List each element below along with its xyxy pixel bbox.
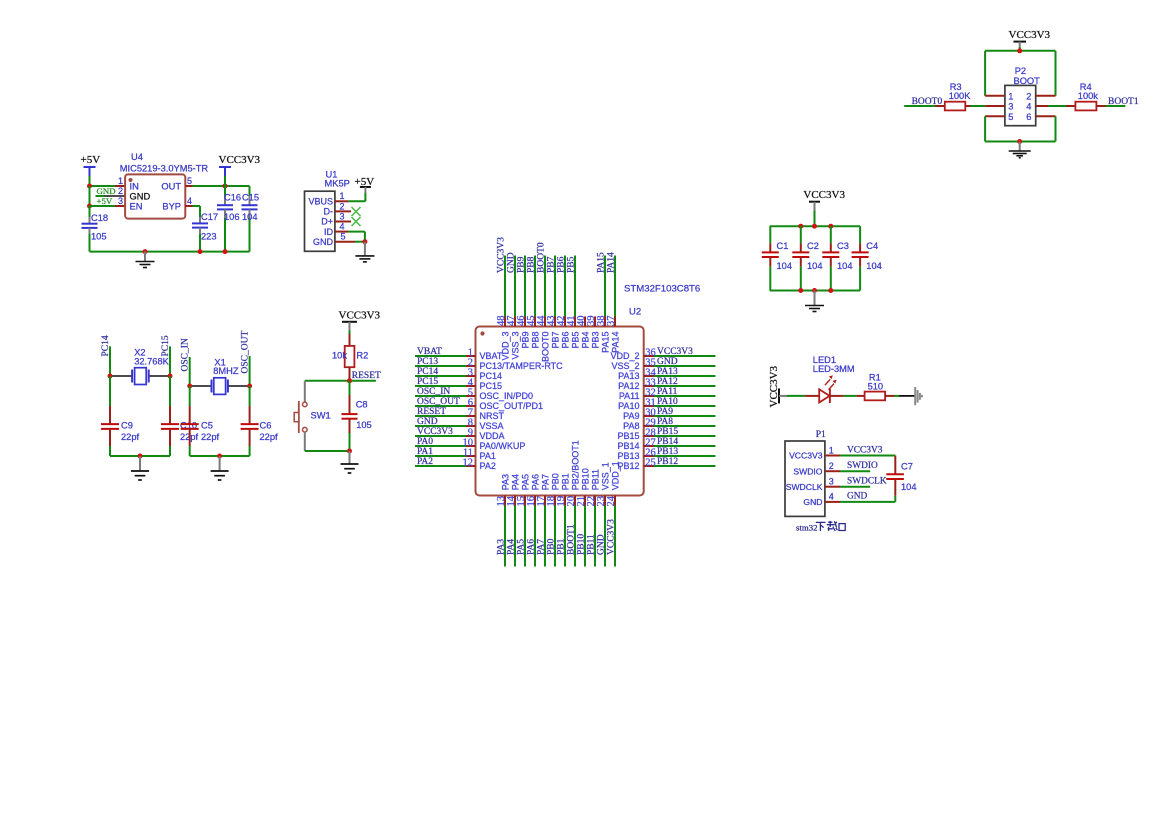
- svg-text:NRST: NRST: [480, 411, 505, 421]
- node junction C8/gnd: [347, 449, 352, 454]
- svg-text:BOOT: BOOT: [1014, 76, 1041, 86]
- wire ground rail: [90, 251, 250, 253]
- svg-text:VCC3V3: VCC3V3: [657, 347, 693, 357]
- svg-text:IN: IN: [130, 181, 139, 191]
- svg-text:STM32F103C8T6: STM32F103C8T6: [624, 284, 700, 295]
- svg-text:C2: C2: [807, 241, 819, 251]
- svg-text:C9: C9: [121, 421, 133, 431]
- char kou: [839, 524, 845, 531]
- svg-text:VSS_3: VSS_3: [510, 332, 520, 360]
- svg-text:104: 104: [901, 482, 917, 492]
- svg-text:VDD_3: VDD_3: [500, 332, 510, 361]
- svg-text:P2: P2: [1015, 66, 1026, 76]
- svg-text:PA9: PA9: [657, 407, 673, 417]
- svg-text:ID: ID: [324, 227, 334, 237]
- wire U2 pin 21 net PB10: [584, 496, 586, 506]
- svg-text:VCC3V3: VCC3V3: [497, 237, 507, 273]
- capacitor C8 105: [349, 381, 351, 395]
- svg-text:105: 105: [91, 232, 107, 242]
- char xia: [816, 522, 826, 531]
- wire U2 pin 39 top: [594, 317, 596, 327]
- ground (reset): [349, 451, 351, 464]
- svg-text:PA11: PA11: [619, 391, 640, 401]
- svg-text:MK5P: MK5P: [325, 178, 350, 188]
- node junction rail/gnd: [143, 249, 148, 254]
- svg-text:GND: GND: [847, 492, 868, 502]
- wire U2 pin 41 top: [574, 317, 576, 327]
- svg-text:PC14: PC14: [417, 367, 438, 377]
- svg-text:C7: C7: [901, 461, 913, 471]
- node junction gnd/loop: [1017, 139, 1022, 144]
- ground (X1): [219, 456, 221, 471]
- svg-text:22pf: 22pf: [201, 432, 220, 442]
- node junction gnd bottom: [812, 288, 817, 293]
- wire U2 pin 28 net PB15: [644, 435, 654, 437]
- svg-text:PB3: PB3: [590, 332, 600, 349]
- wire U2 pin 11 net PA1: [415, 455, 466, 457]
- wire top rail: [770, 225, 860, 227]
- svg-text:PB10: PB10: [580, 468, 590, 490]
- node junction rail X2: [138, 454, 143, 459]
- wire PC15: [169, 346, 171, 376]
- svg-text:C6: C6: [260, 421, 272, 431]
- ground (decoupling): [814, 291, 816, 306]
- capacitor C1 104: [769, 226, 771, 243]
- node junction C3 top: [828, 224, 833, 229]
- svg-text:RESET: RESET: [417, 407, 446, 417]
- svg-text:PA0: PA0: [417, 437, 433, 447]
- svg-text:GND: GND: [130, 192, 151, 202]
- svg-text:U4: U4: [131, 152, 143, 162]
- node junction VCC top: [812, 224, 817, 229]
- capacitor C15 104: [249, 186, 251, 196]
- node junction +5V/IN: [87, 184, 92, 189]
- svg-text:3: 3: [340, 211, 345, 221]
- node junction RESET: [347, 378, 352, 383]
- svg-text:PB5: PB5: [570, 332, 580, 349]
- svg-text:12: 12: [463, 457, 474, 468]
- wire U2 pin 35 net GND: [644, 365, 654, 367]
- wire OSC_IN: [189, 357, 191, 386]
- wire GND pin5: [335, 241, 355, 243]
- ground (X2): [139, 456, 141, 471]
- svg-text:VCC3V3: VCC3V3: [219, 154, 261, 166]
- wire U2 pin 33 net PA12: [644, 385, 654, 387]
- wire U2 pin 34 net PA13: [644, 375, 654, 377]
- svg-text:4: 4: [829, 492, 834, 502]
- svg-text:LED-3MM: LED-3MM: [813, 364, 855, 374]
- svg-text:PB14: PB14: [617, 441, 639, 451]
- svg-text:1: 1: [118, 176, 123, 186]
- node junction rail/C17: [198, 249, 203, 254]
- svg-text:BOOT0: BOOT0: [537, 242, 547, 273]
- svg-text:PA7: PA7: [537, 539, 547, 555]
- svg-text:+5V: +5V: [81, 154, 101, 166]
- svg-text:BOOT1: BOOT1: [1108, 97, 1139, 107]
- svg-text:SW1: SW1: [311, 411, 331, 421]
- svg-text:VBAT: VBAT: [417, 347, 442, 357]
- node junction rail/C16: [223, 249, 228, 254]
- ground (boot): [1019, 142, 1021, 151]
- svg-text:PB8: PB8: [530, 332, 540, 349]
- svg-text:PA14: PA14: [610, 332, 620, 353]
- svg-text:104: 104: [242, 212, 258, 222]
- wire U2 pin 8 net GND: [415, 425, 466, 427]
- svg-text:PA11: PA11: [657, 387, 678, 397]
- svg-text:U2: U2: [629, 307, 641, 318]
- svg-text:GND: GND: [597, 534, 607, 555]
- svg-text:PA14: PA14: [607, 252, 617, 273]
- switch SW1: [304, 381, 306, 402]
- svg-text:PA13: PA13: [657, 367, 678, 377]
- char zai: [827, 521, 838, 531]
- wire U2 pin 13 net PA3: [504, 496, 506, 506]
- svg-text:PA7: PA7: [540, 474, 550, 490]
- svg-text:PB12: PB12: [657, 457, 678, 467]
- wire P2 pin4: [1036, 105, 1048, 107]
- svg-text:100K: 100K: [949, 91, 972, 101]
- svg-text:PB0: PB0: [550, 473, 560, 490]
- wire U2 pin 22 net PB11: [594, 496, 596, 506]
- wire U2 pin 12 net PA2: [415, 465, 466, 467]
- svg-text:VCC3V3: VCC3V3: [847, 445, 883, 455]
- capacitor C18 105: [89, 206, 91, 217]
- svg-text:PA10: PA10: [618, 401, 639, 411]
- wire U2 pin 5 net OSC_IN: [415, 395, 466, 397]
- wire U2 pin 1 net VBAT: [415, 355, 466, 357]
- svg-text:VCC3V3: VCC3V3: [1009, 29, 1051, 41]
- svg-text:BYP: BYP: [162, 202, 181, 212]
- svg-text:PA2: PA2: [480, 461, 496, 471]
- svg-text:1: 1: [1008, 91, 1013, 101]
- node junction C2 bottom: [798, 288, 803, 293]
- svg-text:C5: C5: [201, 421, 213, 431]
- wire U2 pin 18 net PB0: [554, 496, 556, 506]
- wire P1 pin 1 net VCC3V3: [825, 455, 840, 457]
- node junction X1 right: [247, 384, 252, 389]
- svg-text:PA1: PA1: [480, 451, 496, 461]
- svg-text:VCC3V3: VCC3V3: [803, 189, 845, 201]
- wire bottom rail: [770, 290, 860, 292]
- wire U2 pin 43 top: [554, 317, 556, 327]
- wire BOOT0: [904, 105, 935, 107]
- wire D- pin2: [335, 210, 351, 212]
- svg-text:P1: P1: [816, 430, 826, 440]
- svg-text:5: 5: [341, 232, 346, 242]
- svg-text:PB9: PB9: [520, 332, 530, 349]
- wire U2 pin 23 net GND: [604, 496, 606, 506]
- svg-text:C17: C17: [201, 212, 218, 222]
- wire P2 pin6: [1036, 115, 1056, 117]
- svg-text:VCC3V3: VCC3V3: [339, 310, 381, 322]
- wire U2 pin 45 top: [534, 317, 536, 327]
- svg-text:VCC3V3: VCC3V3: [607, 519, 617, 555]
- wire P1 pin 2 net SWDIO: [825, 470, 840, 472]
- wire U2 pin 31 net PA10: [644, 405, 654, 407]
- svg-text:PA12: PA12: [657, 377, 678, 387]
- svg-text:104: 104: [807, 261, 823, 271]
- svg-text:3: 3: [118, 196, 123, 206]
- svg-text:OSC_IN/PD0: OSC_IN/PD0: [480, 391, 534, 401]
- svg-text:GND: GND: [803, 497, 822, 507]
- svg-text:PB15: PB15: [657, 427, 678, 437]
- wire U2 pin 10 net PA0: [415, 445, 466, 447]
- no-connect X (D+): [352, 217, 361, 226]
- capacitor C9 22pf: [109, 376, 111, 406]
- svg-text:PB10: PB10: [577, 534, 587, 555]
- svg-text:SWDCLK: SWDCLK: [786, 482, 823, 492]
- wire U2 pin 16 net PA6: [534, 496, 536, 506]
- svg-text:PB14: PB14: [657, 437, 678, 447]
- svg-text:5: 5: [187, 176, 192, 186]
- svg-text:PA4: PA4: [510, 474, 520, 490]
- svg-text:VSS_1: VSS_1: [600, 462, 610, 490]
- svg-text:PA5: PA5: [520, 474, 530, 490]
- svg-text:2: 2: [829, 461, 834, 471]
- wire ground rail X2: [110, 455, 170, 457]
- wire P2 pin2: [1036, 95, 1056, 97]
- svg-text:24: 24: [606, 495, 617, 506]
- svg-text:PB13: PB13: [657, 447, 678, 457]
- svg-text:4: 4: [340, 222, 345, 232]
- wire U2 pin 44 top: [544, 317, 546, 327]
- wire RESET row: [305, 380, 376, 382]
- svg-text:2: 2: [118, 186, 123, 196]
- wire to ground flag: [899, 395, 915, 397]
- wire U2 pin 14 net PA4: [514, 496, 516, 506]
- svg-text:104: 104: [866, 261, 882, 271]
- ground sideways (LED): [914, 387, 916, 405]
- node junction C2 top: [798, 224, 803, 229]
- svg-text:PB12: PB12: [617, 461, 639, 471]
- svg-text:+5V: +5V: [97, 196, 113, 206]
- wire U2 pin 30 net PA9: [644, 415, 654, 417]
- svg-text:OUT: OUT: [161, 181, 181, 191]
- wire OSC_OUT: [249, 356, 251, 386]
- svg-text:106: 106: [224, 212, 240, 222]
- node junction ID/GND: [362, 239, 367, 244]
- node junction X2 left: [108, 374, 113, 379]
- svg-text:PC13/TAMPER-RTC: PC13/TAMPER-RTC: [480, 361, 564, 371]
- wire U2 pin 29 net PA8: [644, 425, 654, 427]
- wire P1 pin 3 net SWDCLK: [825, 486, 840, 488]
- wire P2 pin1: [985, 95, 1005, 97]
- svg-text:22pf: 22pf: [260, 432, 279, 442]
- wire bottom loop: [984, 116, 986, 141]
- svg-text:1: 1: [340, 191, 345, 201]
- svg-text:PA5: PA5: [517, 539, 527, 555]
- svg-text:PC14: PC14: [480, 371, 503, 381]
- svg-text:SWDIO: SWDIO: [793, 466, 822, 476]
- no-connect X (D-): [352, 207, 361, 216]
- wire top loop: [985, 50, 1055, 52]
- wire U2 pin 4 net PC15: [415, 385, 466, 387]
- svg-text:VSS_2: VSS_2: [611, 361, 639, 371]
- svg-text:PA0/WKUP: PA0/WKUP: [480, 441, 526, 451]
- svg-text:GND: GND: [417, 417, 438, 427]
- svg-text:VBUS: VBUS: [308, 197, 333, 207]
- svg-text:C1: C1: [777, 241, 789, 251]
- wire U2 pin 27 net PB14: [644, 445, 654, 447]
- wire U2 pin 2 net PC13: [415, 365, 466, 367]
- node junction OUT/VCC3V3: [223, 184, 228, 189]
- wire U2 pin 42 top: [564, 317, 566, 327]
- svg-text:8MHZ: 8MHZ: [213, 366, 239, 376]
- wire U2 pin 47 top: [514, 317, 516, 327]
- svg-text:PA13: PA13: [618, 371, 639, 381]
- svg-text:PB11: PB11: [590, 469, 600, 490]
- svg-text:PB2/BOOT1: PB2/BOOT1: [570, 440, 580, 490]
- svg-text:PA8: PA8: [657, 417, 673, 427]
- svg-text:SWDCLK: SWDCLK: [847, 477, 887, 487]
- wire ground rail X1: [190, 455, 250, 457]
- wire ID pin4: [335, 231, 348, 233]
- svg-text:SWDIO: SWDIO: [847, 461, 878, 471]
- svg-text:EN: EN: [130, 202, 143, 212]
- wire PC14: [109, 346, 111, 376]
- wire U2 pin 24 net VCC3V3: [614, 496, 616, 506]
- svg-text:223: 223: [201, 232, 217, 242]
- node junction VCC/loop: [1017, 48, 1022, 53]
- svg-text:104: 104: [777, 261, 793, 271]
- svg-text:PA6: PA6: [530, 474, 540, 490]
- wire U2 pin 48 top: [504, 317, 506, 327]
- capacitor C7 104: [894, 456, 896, 475]
- svg-text:VDD_1: VDD_1: [610, 461, 620, 490]
- svg-text:PA6: PA6: [527, 539, 537, 555]
- svg-text:VSSA: VSSA: [480, 421, 504, 431]
- svg-text:C3: C3: [837, 241, 849, 251]
- wire U2 pin 17 net PA7: [544, 496, 546, 506]
- capacitor C17 223: [199, 206, 201, 217]
- svg-text:PA4: PA4: [507, 539, 517, 555]
- svg-text:2: 2: [340, 201, 345, 211]
- svg-text:OSC_OUT: OSC_OUT: [417, 397, 460, 407]
- LED arrow 1: [825, 379, 830, 385]
- svg-text:1: 1: [829, 445, 834, 455]
- capacitor C5 22pf: [189, 386, 191, 406]
- svg-text:PB9: PB9: [517, 256, 527, 273]
- svg-text:37: 37: [606, 316, 617, 327]
- ground (USB): [364, 242, 366, 256]
- svg-text:PC15: PC15: [417, 377, 438, 387]
- wire BYP pin4 to C17: [185, 205, 192, 207]
- svg-text:C8: C8: [356, 400, 368, 410]
- wire U2 pin 15 net PA5: [524, 496, 526, 506]
- svg-text:PB4: PB4: [580, 332, 590, 349]
- wire OUT pin5: [185, 185, 192, 187]
- svg-text:BOOT1: BOOT1: [567, 524, 577, 555]
- wire U2 pin 25 net PB12: [644, 465, 654, 467]
- capacitor C4 104: [859, 226, 861, 243]
- node junction rail X1: [217, 454, 222, 459]
- svg-text:GND: GND: [657, 357, 678, 367]
- node junction C3 bottom: [828, 288, 833, 293]
- svg-text:PB0: PB0: [547, 538, 557, 555]
- wire U2 pin 37 top: [614, 317, 616, 327]
- wire P2 pin3: [985, 105, 1005, 107]
- svg-text:C15: C15: [242, 192, 259, 202]
- wire P1 pin 4 net GND: [825, 501, 840, 503]
- wire +5V down to EN: [89, 186, 91, 206]
- svg-text:stm32: stm32: [796, 522, 818, 532]
- svg-text:PA3: PA3: [497, 539, 507, 555]
- svg-text:PA10: PA10: [657, 397, 678, 407]
- svg-text:VCC3V3: VCC3V3: [789, 451, 823, 461]
- svg-text:PA15: PA15: [600, 332, 610, 353]
- svg-text:105: 105: [356, 420, 372, 430]
- svg-text:GND: GND: [507, 252, 517, 273]
- svg-text:100k: 100k: [1078, 91, 1099, 101]
- svg-text:PB13: PB13: [617, 451, 639, 461]
- ground (U4 block): [144, 252, 146, 261]
- svg-text:OSC_OUT/PD1: OSC_OUT/PD1: [480, 401, 544, 411]
- svg-text:32.768K: 32.768K: [134, 356, 169, 366]
- capacitor C16 106: [224, 186, 226, 196]
- wire U2 pin 40 top: [584, 317, 586, 327]
- capacitor C10 22pf: [169, 376, 171, 406]
- svg-text:2: 2: [1026, 91, 1031, 101]
- wire U2 pin 19 net PB1: [564, 496, 566, 506]
- svg-text:D-: D-: [324, 207, 334, 217]
- svg-text:C4: C4: [866, 241, 878, 251]
- wire +5V rail to U4 pin1: [90, 185, 116, 187]
- node junction EN/C18: [87, 204, 92, 209]
- svg-text:GND: GND: [313, 237, 334, 247]
- wire EN pin3: [90, 205, 116, 207]
- wire U2 pin 6 net OSC_OUT: [415, 405, 466, 407]
- wire VBUS pin1: [335, 200, 348, 202]
- svg-text:PB5: PB5: [567, 256, 577, 273]
- svg-text:MIC5219-3.0YM5-TR: MIC5219-3.0YM5-TR: [120, 163, 209, 173]
- wire U2 pin 36 net VCC3V3: [644, 355, 654, 357]
- svg-text:GND: GND: [97, 186, 116, 196]
- svg-text:PC15: PC15: [480, 381, 503, 391]
- svg-text:PB7: PB7: [547, 256, 557, 273]
- svg-text:PB1: PB1: [560, 473, 570, 490]
- wire U2 pin 26 net PB13: [644, 455, 654, 457]
- node junction X2 right: [168, 374, 173, 379]
- svg-text:RESET: RESET: [352, 371, 381, 381]
- wire U2 pin 46 top: [524, 317, 526, 327]
- wire LED to R1: [830, 395, 844, 397]
- wire U2 pin 7 net RESET: [415, 415, 466, 417]
- wire U2 pin 20 net BOOT1: [574, 496, 576, 506]
- svg-text:PB7: PB7: [550, 332, 560, 349]
- svg-text:VDDA: VDDA: [480, 431, 505, 441]
- resistor R2 10k: [349, 334, 351, 346]
- svg-text:PA12: PA12: [618, 381, 639, 391]
- wire GND pin2: [96, 195, 105, 197]
- svg-text:PA8: PA8: [623, 421, 639, 431]
- svg-text:510: 510: [868, 382, 884, 392]
- svg-text:OSC_IN: OSC_IN: [417, 387, 450, 397]
- svg-text:PA3: PA3: [500, 474, 510, 490]
- capacitor C2 104: [800, 226, 802, 243]
- svg-text:PB6: PB6: [557, 256, 567, 273]
- wire U2 pin 32 net PA11: [644, 395, 654, 397]
- svg-text:5: 5: [1008, 112, 1013, 122]
- svg-text:104: 104: [837, 261, 853, 271]
- svg-text:PB15: PB15: [617, 431, 639, 441]
- LED arrow 2: [829, 384, 834, 390]
- svg-text:22pf: 22pf: [121, 432, 140, 442]
- svg-text:PB11: PB11: [587, 534, 597, 555]
- svg-text:BOOT0: BOOT0: [540, 332, 550, 363]
- svg-text:D+: D+: [321, 217, 333, 227]
- wire P2 pin5: [985, 115, 1005, 117]
- svg-text:VCC3V3: VCC3V3: [417, 427, 453, 437]
